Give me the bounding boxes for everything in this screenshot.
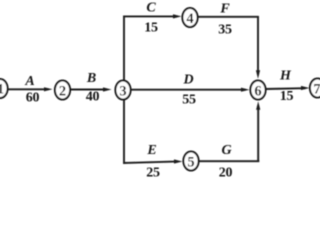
wire: drop from F corner down to node6	[257, 16, 259, 75]
node 1	[0, 79, 8, 98]
svg-text:35: 35	[218, 23, 232, 38]
svg-text:25: 25	[146, 166, 160, 181]
svg-text:H: H	[279, 69, 292, 84]
svg-text:A: A	[24, 74, 34, 89]
wire H: node6 to node7	[266, 87, 306, 90]
arrowhead into node 3	[103, 87, 112, 91]
node 2	[55, 81, 70, 100]
wire C: horizontal to node4	[123, 15, 177, 17]
svg-text:G: G	[221, 143, 231, 158]
arrowhead into node 6 (from F, pointing down)	[256, 70, 260, 79]
arrowhead into node 4	[173, 14, 182, 18]
node 6	[250, 81, 265, 100]
svg-text:2: 2	[59, 83, 66, 99]
wire A: node1 to node2	[7, 88, 49, 90]
svg-text:55: 55	[182, 93, 196, 108]
svg-text:1: 1	[0, 82, 4, 98]
svg-text:60: 60	[26, 91, 40, 106]
svg-text:C: C	[146, 1, 156, 16]
svg-text:6: 6	[254, 83, 261, 99]
svg-text:15: 15	[280, 89, 294, 104]
svg-text:7: 7	[313, 81, 320, 97]
node 3	[115, 81, 130, 100]
svg-text:4: 4	[186, 11, 193, 27]
svg-text:D: D	[182, 72, 193, 87]
wire: drop from node3 down to E level	[123, 99, 125, 164]
wire D: node3 to node6	[131, 89, 246, 91]
node 5	[183, 152, 198, 171]
arrowhead into node 5	[174, 159, 183, 163]
svg-text:15: 15	[144, 21, 158, 36]
svg-text:3: 3	[119, 83, 126, 99]
arrowhead into node 6 (from D)	[241, 88, 250, 92]
svg-text:E: E	[146, 143, 156, 158]
wire: riser from node3 up to C level	[123, 16, 125, 81]
wire G: node5 to corner	[199, 160, 260, 162]
arrowhead into node 6 (from G, pointing up)	[256, 101, 260, 110]
wire E: horizontal to node5	[123, 161, 178, 163]
node 4	[182, 8, 197, 27]
wire B: node2 to node3	[71, 89, 108, 91]
wire F: node4 to corner	[198, 16, 259, 18]
svg-text:40: 40	[86, 90, 100, 105]
svg-text:5: 5	[187, 154, 194, 170]
arrowhead into node 2	[44, 87, 53, 91]
wire: riser from G corner up to node6	[257, 106, 259, 163]
node 7	[310, 79, 320, 98]
arrowhead into node 7	[301, 86, 310, 90]
svg-text:20: 20	[219, 165, 233, 180]
svg-text:B: B	[86, 71, 96, 86]
svg-text:F: F	[219, 1, 230, 16]
